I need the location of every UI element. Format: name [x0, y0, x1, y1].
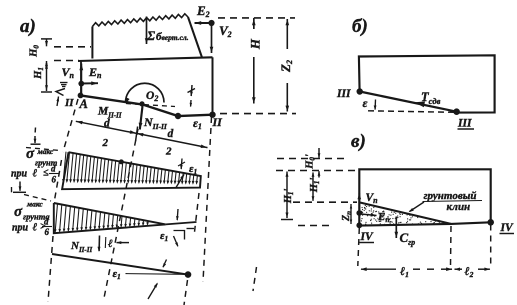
- svg-text:при: при: [11, 169, 28, 180]
- svg-text:H: H: [248, 38, 263, 50]
- svg-text:d: d: [104, 118, 110, 130]
- svg-text:А: А: [79, 97, 88, 111]
- svg-text:б): б): [352, 16, 368, 37]
- svg-text:d: d: [168, 128, 174, 140]
- svg-text:2: 2: [102, 137, 109, 149]
- svg-text:IV: IV: [360, 231, 374, 243]
- svg-text:III: III: [457, 118, 472, 130]
- svg-text:d: d: [51, 164, 56, 174]
- svg-text:H0': H0': [305, 154, 317, 170]
- svg-text:6: 6: [45, 227, 50, 237]
- svg-text:макс: макс: [26, 200, 43, 209]
- svg-text:макс: макс: [37, 147, 54, 156]
- svg-text:III: III: [336, 88, 351, 100]
- svg-text:клин: клин: [447, 201, 471, 213]
- svg-text:ε: ε: [363, 96, 368, 110]
- svg-text:σ: σ: [26, 146, 35, 162]
- svg-text:H1': H1': [309, 178, 321, 194]
- svg-text:II: II: [64, 97, 74, 109]
- svg-text:ℓ: ℓ: [33, 222, 38, 234]
- svg-text:бверт.сл.: бверт.сл.: [156, 31, 189, 43]
- svg-text:при: при: [12, 223, 29, 234]
- svg-text:ℓ: ℓ: [33, 168, 38, 180]
- svg-text:а): а): [20, 16, 36, 37]
- svg-text:σ: σ: [14, 204, 23, 220]
- svg-text:H1': H1': [283, 189, 295, 205]
- svg-text:6: 6: [52, 175, 57, 185]
- svg-text:в): в): [351, 131, 366, 152]
- svg-text:2: 2: [165, 146, 172, 158]
- svg-text:Σ: Σ: [146, 28, 155, 43]
- svg-text:ℓ: ℓ: [108, 238, 113, 250]
- svg-text:d: d: [44, 217, 49, 227]
- svg-text:IV: IV: [500, 222, 514, 234]
- svg-text:II: II: [212, 115, 224, 129]
- svg-text:≤: ≤: [43, 168, 49, 179]
